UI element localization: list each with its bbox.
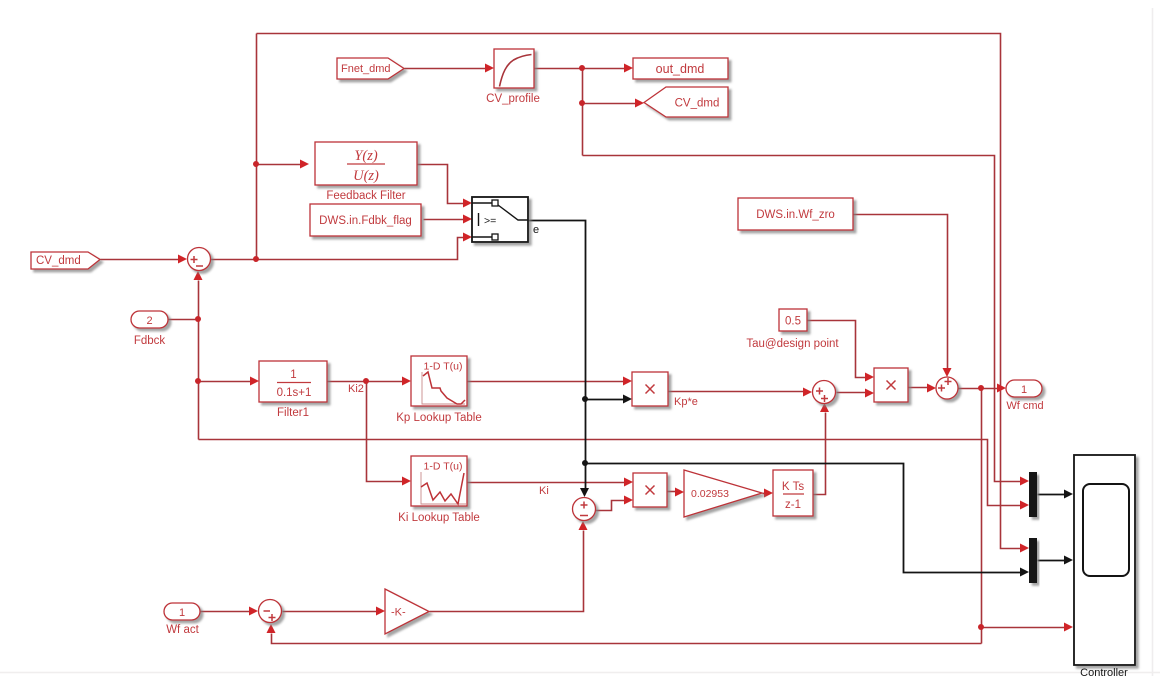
wire to Feedback Filter input bbox=[257, 160, 310, 169]
svg-text:z-1: z-1 bbox=[785, 499, 801, 511]
svg-text:U(z): U(z) bbox=[353, 168, 379, 184]
wire gain -K- up to sum2 minus bbox=[430, 521, 588, 612]
wire black branch to mux2 input2 bbox=[586, 464, 1030, 577]
product2 (x) bbox=[874, 368, 908, 402]
wire mux1 to scope bbox=[1038, 490, 1074, 499]
sum4 bbox=[936, 377, 958, 399]
wire K Ts feedback up to sum3 bbox=[814, 403, 830, 495]
sum2 bbox=[573, 498, 596, 521]
svg-text:1-D T(u): 1-D T(u) bbox=[424, 361, 463, 373]
svg-text:Ki: Ki bbox=[539, 485, 549, 497]
goto tag CV_dmd bbox=[644, 87, 728, 117]
block DWS.in.Wf_zro bbox=[738, 198, 853, 230]
svg-text:out_dmd: out_dmd bbox=[656, 62, 705, 76]
block CV_profile bbox=[486, 49, 540, 105]
svg-text:Fnet_dmd: Fnet_dmd bbox=[341, 63, 391, 75]
svg-text:Filter1: Filter1 bbox=[277, 407, 309, 419]
wire Filter1 to Kp Lookup Table bbox=[328, 377, 412, 386]
mux1 bbox=[1029, 472, 1037, 517]
constant 0.5 bbox=[746, 309, 839, 350]
wire sum2 to Ki product input2 bbox=[596, 496, 634, 511]
product Ki (x) bbox=[633, 473, 667, 507]
svg-text:CV_dmd: CV_dmd bbox=[36, 255, 81, 267]
wire sum3 to product2 input2 bbox=[837, 389, 875, 398]
wire to Filter1 input bbox=[199, 377, 260, 386]
wire Kp*e to sum3 bbox=[669, 388, 813, 397]
wire gain 0.02953 to K Ts block bbox=[763, 489, 774, 498]
wire Kp Lookup Table to Kp product bbox=[468, 377, 633, 386]
wire branch to CV_dmd goto bbox=[583, 99, 645, 108]
signal label Kp*e bbox=[674, 396, 698, 408]
outport 1 Wf cmd bbox=[1006, 380, 1044, 412]
svg-text:Kp Lookup Table: Kp Lookup Table bbox=[396, 412, 481, 424]
svg-text:Kp*e: Kp*e bbox=[674, 396, 698, 408]
wire Ki2 branch down to Ki Lookup Table bbox=[367, 382, 412, 486]
svg-text:1: 1 bbox=[290, 369, 296, 381]
svg-text:Feedback Filter: Feedback Filter bbox=[326, 190, 405, 202]
svg-text:0.5: 0.5 bbox=[785, 316, 801, 328]
svg-text:e: e bbox=[533, 224, 539, 236]
wire mux2 to scope bbox=[1038, 556, 1074, 565]
sum3 bbox=[813, 381, 836, 404]
gain 0.02953 bbox=[684, 470, 762, 517]
block K Ts / z-1 bbox=[773, 470, 813, 516]
svg-text:Ki Lookup Table: Ki Lookup Table bbox=[398, 512, 480, 524]
svg-text:Wf cmd: Wf cmd bbox=[1006, 400, 1043, 412]
wire Ki product to gain 0.02953 bbox=[668, 488, 685, 497]
wire Wf act port to sum5 bbox=[201, 607, 259, 616]
gain -K- bbox=[385, 589, 429, 634]
junction dots red bbox=[195, 65, 984, 630]
svg-text:1: 1 bbox=[1021, 384, 1027, 396]
svg-text:Tau@design point: Tau@design point bbox=[746, 338, 839, 350]
svg-text:2: 2 bbox=[146, 315, 152, 327]
wire black branch to Kp product input2 bbox=[586, 395, 633, 404]
svg-text:0.02953: 0.02953 bbox=[691, 488, 729, 500]
wire sum1 output to switch input3 bbox=[211, 233, 473, 260]
svg-text:K Ts: K Ts bbox=[782, 481, 804, 493]
scope Controller bbox=[1074, 455, 1135, 676]
wire error-signal top run to mux2 input1 bbox=[257, 34, 1030, 553]
wire feedback run y643 to sum5 bbox=[267, 624, 982, 644]
mux2 bbox=[1029, 538, 1037, 583]
svg-text:0.1s+1: 0.1s+1 bbox=[277, 387, 312, 399]
block Kp Lookup Table bbox=[396, 356, 481, 424]
wire CV_profile signal to mux1 input1 bbox=[583, 156, 1030, 486]
wire Ki Lookup Table to Ki product bbox=[468, 478, 634, 487]
inport 2 Fdbck bbox=[131, 311, 168, 347]
svg-text:-K-: -K- bbox=[391, 607, 406, 619]
wire Wf cmd branch down to scope input3 bbox=[982, 389, 1074, 644]
switch U1 bbox=[472, 197, 528, 242]
label e on switch output bbox=[533, 224, 539, 236]
wire switch output e (black) bbox=[529, 221, 590, 498]
wire sum4 to Wf cmd port bbox=[959, 384, 1007, 393]
svg-text:Ki2: Ki2 bbox=[348, 383, 364, 395]
sum1 bbox=[188, 248, 211, 271]
svg-text:>=: >= bbox=[484, 215, 496, 227]
wire sum5 to gain -K- bbox=[283, 607, 386, 616]
wire Fnet_dmd to CV_profile bbox=[405, 64, 495, 73]
wire product2 to sum4 bbox=[909, 384, 937, 393]
block Filter1 bbox=[259, 361, 327, 419]
product Kp (x) bbox=[632, 372, 668, 406]
inport 1 Wf act bbox=[164, 603, 200, 636]
svg-text:Y(z): Y(z) bbox=[354, 148, 378, 164]
svg-text:1-D T(u): 1-D T(u) bbox=[424, 461, 463, 473]
from tag CV_dmd (left) bbox=[31, 252, 100, 269]
wire Fdbck long run to mux1 input2 bbox=[199, 440, 1030, 510]
wire branch down from CV_profile output bbox=[582, 69, 584, 156]
svg-text:DWS.in.Wf_zro: DWS.in.Wf_zro bbox=[756, 209, 835, 221]
wire CV_dmd from-tag to sum1 bbox=[101, 255, 188, 264]
svg-text:1: 1 bbox=[179, 607, 185, 619]
input tag Fnet_dmd bbox=[337, 58, 404, 79]
wire CV_profile to out_dmd bbox=[535, 64, 634, 73]
svg-text:DWS.in.Fdbk_flag: DWS.in.Fdbk_flag bbox=[319, 215, 412, 227]
block Ki Lookup Table bbox=[398, 456, 480, 524]
faint bottom border bbox=[0, 672, 1160, 674]
svg-text:CV_dmd: CV_dmd bbox=[675, 98, 720, 110]
block Feedback Filter bbox=[315, 142, 417, 202]
wire error-signal vertical x256 bbox=[256, 34, 258, 261]
svg-text:Wf act: Wf act bbox=[166, 624, 199, 636]
svg-text:Fdbck: Fdbck bbox=[134, 335, 166, 347]
sum5 bbox=[259, 600, 282, 623]
signal label Ki bbox=[539, 485, 549, 497]
wire Fdbck port to sum1 and down bbox=[169, 271, 203, 440]
block DWS.in.Fdbk_flag bbox=[310, 204, 421, 236]
outport out_dmd bbox=[633, 58, 728, 79]
svg-text:Controller: Controller bbox=[1080, 667, 1128, 676]
svg-text:CV_profile: CV_profile bbox=[486, 93, 540, 105]
signal label Ki2 bbox=[348, 383, 364, 395]
wire Fdbk_flag to switch input2 bbox=[424, 215, 473, 224]
wire DWS.in.Wf_zro down to sum4 bbox=[854, 215, 952, 378]
wire Feedback Filter to switch input1 bbox=[418, 165, 473, 208]
faint right border bbox=[1152, 8, 1154, 676]
junction dots black bbox=[582, 396, 588, 466]
wire 0.5 constant to product2 input1 bbox=[808, 321, 875, 382]
